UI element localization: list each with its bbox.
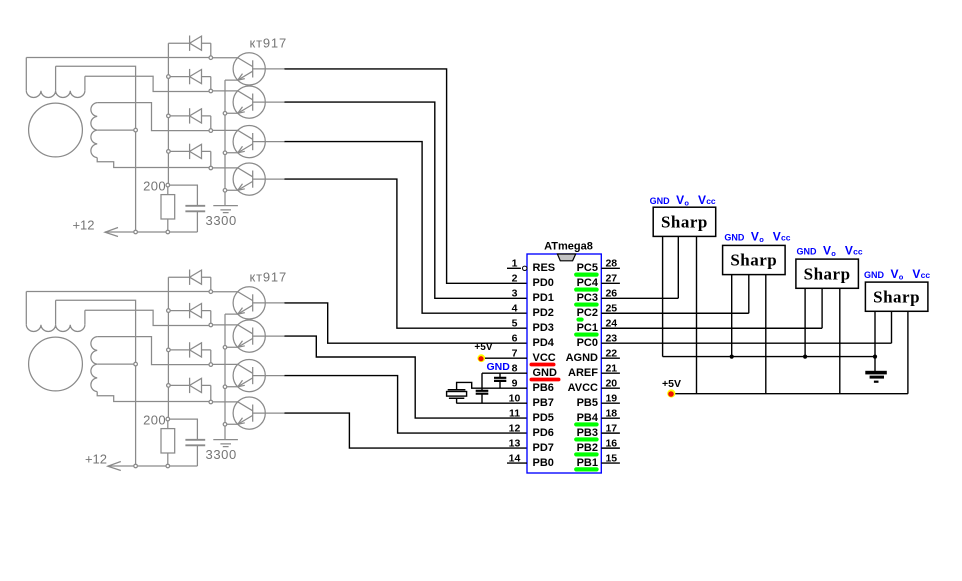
svg-text:14: 14 <box>509 453 521 465</box>
svg-text:Sharp: Sharp <box>661 213 708 232</box>
svg-text:o: o <box>684 199 689 208</box>
svg-text:кт917: кт917 <box>250 36 287 51</box>
svg-text:V: V <box>823 244 831 258</box>
svg-text:PC5: PC5 <box>577 262 598 274</box>
svg-text:27: 27 <box>605 273 617 285</box>
svg-text:V: V <box>773 229 781 243</box>
svg-text:o: o <box>899 273 904 282</box>
svg-text:GND: GND <box>533 367 558 379</box>
svg-text:12: 12 <box>509 423 521 435</box>
svg-text:PD6: PD6 <box>533 427 554 439</box>
svg-text:13: 13 <box>509 438 521 450</box>
svg-text:V: V <box>845 244 853 258</box>
svg-text:PC3: PC3 <box>577 292 598 304</box>
svg-text:PD5: PD5 <box>533 412 554 424</box>
svg-text:16: 16 <box>605 438 617 450</box>
svg-text:3: 3 <box>512 288 518 300</box>
svg-text:GND: GND <box>724 232 745 242</box>
svg-text:cc: cc <box>853 247 863 257</box>
svg-text:PB6: PB6 <box>533 382 554 394</box>
svg-text:AREF: AREF <box>568 367 598 379</box>
svg-text:PC2: PC2 <box>577 307 598 319</box>
svg-text:15: 15 <box>605 453 617 465</box>
svg-text:5: 5 <box>512 318 518 330</box>
svg-text:6: 6 <box>512 333 518 345</box>
svg-text:PD3: PD3 <box>533 322 554 334</box>
svg-text:cc: cc <box>781 232 791 242</box>
svg-text:PC4: PC4 <box>577 277 599 289</box>
svg-text:18: 18 <box>605 408 617 420</box>
svg-text:PB4: PB4 <box>577 412 599 424</box>
svg-text:22: 22 <box>605 348 617 360</box>
svg-text:PD1: PD1 <box>533 292 554 304</box>
svg-text:AGND: AGND <box>566 352 598 364</box>
svg-text:GND: GND <box>864 270 885 280</box>
svg-text:11: 11 <box>509 408 520 420</box>
svg-text:PB5: PB5 <box>577 397 598 409</box>
svg-text:кт917: кт917 <box>250 270 287 285</box>
svg-text:19: 19 <box>605 393 617 405</box>
svg-text:cc: cc <box>706 196 716 206</box>
svg-text:GND: GND <box>797 247 818 257</box>
svg-text:+12: +12 <box>85 452 107 467</box>
svg-text:ATmega8: ATmega8 <box>544 240 593 252</box>
svg-text:o: o <box>759 235 764 244</box>
svg-text:2: 2 <box>512 273 518 285</box>
svg-text:3300: 3300 <box>206 447 237 462</box>
svg-text:17: 17 <box>605 423 617 435</box>
svg-text:PB3: PB3 <box>577 427 598 439</box>
svg-text:+5V: +5V <box>474 342 492 353</box>
svg-text:V: V <box>912 267 920 281</box>
svg-text:PD2: PD2 <box>533 307 554 319</box>
svg-text:PB7: PB7 <box>533 397 554 409</box>
svg-text:GND: GND <box>487 361 511 373</box>
svg-text:Sharp: Sharp <box>730 251 777 270</box>
svg-text:PD4: PD4 <box>533 337 555 349</box>
svg-text:+5V: +5V <box>662 378 681 390</box>
svg-text:200: 200 <box>143 179 166 194</box>
svg-text:GND: GND <box>650 196 671 206</box>
svg-text:3300: 3300 <box>206 213 237 228</box>
svg-text:AVCC: AVCC <box>568 382 598 394</box>
svg-text:V: V <box>698 193 706 207</box>
svg-text:VCC: VCC <box>533 352 556 364</box>
svg-text:PD0: PD0 <box>533 277 554 289</box>
svg-text:Sharp: Sharp <box>804 264 851 283</box>
svg-text:21: 21 <box>605 363 617 375</box>
svg-text:PC0: PC0 <box>577 337 598 349</box>
svg-text:20: 20 <box>605 378 617 390</box>
svg-text:Sharp: Sharp <box>873 287 920 306</box>
svg-text:cc: cc <box>921 270 931 280</box>
svg-text:PC1: PC1 <box>577 322 598 334</box>
svg-text:V: V <box>676 193 684 207</box>
svg-text:PB2: PB2 <box>577 442 598 454</box>
svg-text:+12: +12 <box>72 218 94 233</box>
svg-text:V: V <box>751 229 759 243</box>
svg-text:200: 200 <box>143 413 166 428</box>
svg-text:4: 4 <box>512 303 518 315</box>
svg-text:PB0: PB0 <box>533 457 554 469</box>
svg-text:o: o <box>831 249 836 258</box>
svg-text:RES: RES <box>533 262 556 274</box>
svg-text:1: 1 <box>512 258 518 270</box>
svg-text:PB1: PB1 <box>577 457 598 469</box>
svg-text:28: 28 <box>605 258 617 270</box>
svg-text:PD7: PD7 <box>533 442 554 454</box>
svg-text:V: V <box>891 267 899 281</box>
